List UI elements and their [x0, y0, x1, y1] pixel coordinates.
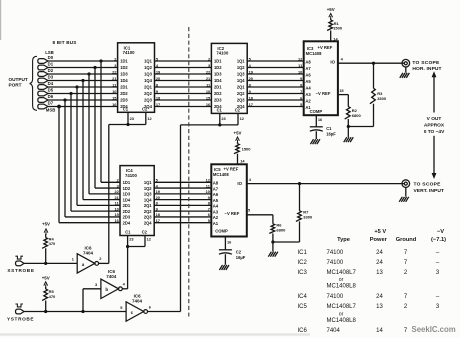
svg-text:A2: A2	[305, 98, 311, 103]
svg-text:1Q2: 1Q2	[237, 65, 245, 70]
wire IC4 2Q4 to IC5	[154, 222, 211, 224]
svg-text:2Q3: 2Q3	[144, 215, 152, 220]
svg-text:74100: 74100	[216, 51, 229, 56]
svg-text:2D2: 2D2	[123, 209, 131, 214]
svg-text:1D2: 1D2	[214, 65, 222, 70]
wire D4 to IC1	[48, 86, 118, 88]
svg-text:2D3: 2D3	[214, 98, 222, 103]
svg-text:Power: Power	[370, 237, 388, 243]
junction IC2 strobe	[218, 123, 221, 126]
svg-text:2D2: 2D2	[214, 91, 222, 96]
svg-text:C1: C1	[326, 126, 332, 131]
svg-text:XSTROBE: XSTROBE	[7, 268, 34, 273]
svg-text:24: 24	[376, 260, 383, 266]
svg-text:7404: 7404	[132, 298, 143, 303]
wire D7 to IC1	[48, 106, 118, 108]
port connector D4	[38, 85, 48, 90]
IC IC4 74100	[120, 166, 154, 236]
svg-text:MC1408L8: MC1408L8	[327, 318, 357, 324]
resistor R7 3300	[296, 184, 313, 242]
svg-text:−V REF: −V REF	[225, 211, 240, 216]
svg-text:2Q1: 2Q1	[144, 203, 152, 208]
svg-text:D0: D0	[48, 55, 54, 60]
junction R6/R7 node	[271, 240, 274, 243]
svg-text:MC1408L7: MC1408L7	[327, 304, 357, 310]
wire inverter a output to IC1 strobe	[108, 125, 110, 264]
port connector D7	[38, 104, 48, 109]
wire C2 to ground	[224, 254, 226, 265]
svg-text:2D1: 2D1	[123, 203, 131, 208]
port connector D5	[38, 91, 48, 96]
ground below R2	[344, 137, 347, 142]
wire D7 branch down to IC4	[58, 107, 60, 223]
svg-text:1D4: 1D4	[120, 78, 128, 83]
junction inverter b tap	[81, 310, 84, 313]
svg-text:2D2: 2D2	[120, 91, 128, 96]
svg-text:APPROX: APPROX	[424, 123, 445, 129]
inverter a IC6 7404	[72, 245, 103, 273]
svg-text:1Q4: 1Q4	[144, 78, 152, 83]
wire D0 to IC1	[48, 60, 118, 62]
pin 16 IC5 COMP	[224, 237, 226, 250]
wire D2 branch down to IC4	[88, 74, 90, 194]
connector to scope vert input	[402, 180, 410, 188]
pin 12 IC1 C2	[145, 112, 147, 124]
inverter c IC6 7404	[120, 293, 152, 321]
svg-text:24: 24	[376, 250, 383, 256]
wire IC1 1Q4 to IC2 1D4	[155, 80, 212, 82]
svg-text:2Q3: 2Q3	[237, 98, 245, 103]
wire D4 branch down to IC4	[76, 87, 78, 205]
svg-text:MC1408: MC1408	[213, 172, 229, 177]
svg-text:A6: A6	[305, 72, 311, 77]
wire IC4 1Q3 to IC5	[154, 193, 211, 195]
svg-text:A3: A3	[213, 209, 219, 214]
svg-text:b: b	[105, 287, 108, 292]
svg-text:TO SCOPE: TO SCOPE	[412, 60, 440, 66]
svg-text:A4: A4	[305, 85, 311, 90]
svg-text:A1: A1	[305, 105, 311, 110]
connector to scope hor input	[402, 59, 410, 67]
svg-text:10: 10	[114, 206, 118, 211]
svg-text:TO SCOPE: TO SCOPE	[414, 182, 442, 188]
wire IC3 output to scope hor	[338, 62, 405, 64]
svg-text:A2: A2	[213, 215, 219, 220]
svg-text:6800: 6800	[352, 113, 362, 118]
wire IC4 1Q2 to IC5	[154, 187, 211, 189]
svg-text:Ground: Ground	[396, 237, 417, 243]
junction R2/R3 node	[347, 125, 350, 128]
wire tap up to inverter b	[82, 289, 84, 312]
svg-text:C1: C1	[123, 107, 129, 112]
svg-text:1D2: 1D2	[123, 186, 131, 191]
svg-text:YSTROBE: YSTROBE	[7, 316, 34, 321]
svg-text:2D1: 2D1	[214, 85, 222, 90]
svg-text:14: 14	[376, 328, 383, 334]
svg-text:−V: −V	[437, 229, 444, 235]
inverter b IC6 7404	[95, 269, 126, 299]
svg-text:10: 10	[112, 89, 116, 94]
resistor R3 3300	[370, 63, 387, 126]
IC IC2 74100	[211, 43, 247, 113]
junction D7	[57, 105, 61, 109]
wire IC1 strobe bar	[109, 124, 146, 126]
resistor R1 1500	[327, 19, 343, 42]
svg-text:1Q3: 1Q3	[144, 72, 152, 77]
svg-text:6800: 6800	[276, 228, 286, 233]
capacitor C2 16uF	[219, 249, 246, 259]
pin 23 IC2 C1	[219, 113, 221, 125]
svg-text:2Q1: 2Q1	[237, 85, 245, 90]
svg-text:1Q3: 1Q3	[144, 192, 152, 197]
svg-text:+5V: +5V	[234, 131, 242, 136]
OUTPUT PORT label	[9, 77, 28, 87]
svg-text:+5V: +5V	[327, 7, 335, 12]
junction IC4 strobe	[126, 245, 129, 248]
svg-text:−V REF: −V REF	[316, 91, 331, 96]
svg-text:0 TO −4V: 0 TO −4V	[424, 129, 445, 135]
svg-text:C2: C2	[236, 249, 242, 254]
wire D1 to IC1	[48, 67, 118, 69]
svg-text:+5V: +5V	[42, 221, 50, 226]
svg-text:1Q1: 1Q1	[144, 59, 152, 64]
wire C1 to ground	[315, 131, 317, 139]
svg-text:7404: 7404	[106, 274, 117, 279]
svg-text:+5 V: +5 V	[374, 229, 386, 235]
svg-text:A8: A8	[213, 181, 219, 186]
svg-text:470: 470	[49, 294, 56, 299]
YSTROBE connector	[16, 309, 25, 314]
wire inverter c out	[148, 311, 181, 313]
pin 16 IC3 COMP	[315, 115, 317, 127]
svg-text:1D1: 1D1	[214, 59, 222, 64]
svg-text:1Q4: 1Q4	[237, 78, 245, 83]
ground below R6	[268, 252, 271, 257]
wire D3 to IC1	[48, 80, 118, 82]
svg-text:IC4: IC4	[298, 294, 308, 300]
ground below C2	[219, 265, 222, 270]
svg-text:IC5: IC5	[298, 304, 308, 310]
wire inverter b out	[122, 288, 127, 290]
svg-text:a: a	[82, 262, 85, 267]
svg-text:COMP: COMP	[310, 109, 323, 114]
svg-text:2Q3: 2Q3	[144, 98, 152, 103]
svg-text:1D1: 1D1	[123, 180, 131, 185]
svg-text:MSB: MSB	[46, 107, 56, 112]
svg-text:D6: D6	[48, 94, 54, 99]
XSTROBE connector	[16, 261, 25, 266]
junction R5	[44, 310, 47, 313]
resistor R4 470	[42, 234, 56, 264]
svg-text:1D3: 1D3	[120, 72, 128, 77]
svg-text:A3: A3	[305, 92, 311, 97]
svg-text:16pF: 16pF	[326, 132, 336, 137]
svg-text:or: or	[339, 277, 344, 283]
wire node to ground	[272, 242, 274, 252]
svg-text:1D1: 1D1	[120, 59, 128, 64]
svg-text:3300: 3300	[303, 214, 313, 219]
svg-text:7404: 7404	[327, 328, 341, 334]
pin 23 IC1 C1	[127, 112, 129, 124]
ground at hor connector	[405, 67, 407, 73]
junction D3	[81, 79, 84, 82]
port connector D3	[38, 78, 48, 83]
svg-text:(−7.1): (−7.1)	[431, 237, 446, 243]
junction R3 top	[372, 62, 375, 65]
wire D2 to IC1	[48, 73, 118, 75]
port connector D0	[38, 59, 48, 64]
wire D6 to IC1	[48, 99, 118, 101]
wire IC1 2Q4 to IC2 2D4	[155, 106, 212, 108]
pin 23 IC4 C1	[127, 236, 129, 247]
wire IC2 1Q1 to IC3 A	[247, 60, 304, 62]
port connector D6	[38, 98, 48, 103]
ground at vert connector	[405, 187, 407, 196]
resistor R2 6800	[345, 95, 362, 127]
svg-text:1Q2: 1Q2	[144, 186, 152, 191]
wire R3 bottom to R2 node	[348, 126, 373, 128]
svg-text:IC3: IC3	[298, 270, 308, 276]
V OUT annotation arrow	[424, 71, 445, 179]
wire IC1 1Q1 to IC2 1D1	[155, 60, 212, 62]
wire inverter a out	[99, 262, 109, 264]
TO SCOPE HOR. INPUT label	[412, 60, 441, 72]
junction R4	[44, 262, 47, 265]
svg-text:3300: 3300	[377, 96, 387, 101]
svg-text:7: 7	[300, 89, 302, 94]
svg-text:MC1408L7: MC1408L7	[327, 270, 357, 276]
svg-text:D4: D4	[48, 81, 54, 86]
svg-text:D1: D1	[48, 61, 54, 66]
svg-text:1Q1: 1Q1	[144, 180, 152, 185]
svg-text:2D3: 2D3	[123, 215, 131, 220]
svg-text:IO: IO	[330, 60, 335, 65]
wire D3 branch down to IC4	[82, 81, 84, 200]
wire IC4 2Q3 to IC5	[154, 216, 211, 218]
scan artifact lines	[0, 333, 310, 335]
svg-text:+V REF: +V REF	[224, 166, 239, 171]
svg-text:PORT: PORT	[9, 82, 22, 87]
wire YSTROBE to inverter c	[24, 311, 126, 313]
svg-text:13: 13	[376, 304, 383, 310]
wire IC1 2Q2 to IC2 2D2	[155, 93, 212, 95]
svg-text:74100: 74100	[123, 50, 136, 55]
wire IC2 1Q3 to IC3 A	[247, 73, 304, 75]
svg-text:2Q1: 2Q1	[144, 85, 152, 90]
svg-text:COMP: COMP	[215, 229, 228, 234]
svg-text:D2: D2	[48, 68, 54, 73]
junction D2	[87, 72, 90, 75]
port connector D1	[38, 65, 48, 70]
svg-text:10: 10	[298, 69, 302, 74]
wire D0 branch down to IC4	[100, 61, 102, 182]
svg-text:D3: D3	[48, 74, 54, 79]
svg-text:10: 10	[206, 189, 210, 194]
svg-text:1Q2: 1Q2	[144, 65, 152, 70]
svg-text:A6: A6	[213, 192, 219, 197]
svg-text:2D3: 2D3	[120, 98, 128, 103]
wire IC1 2Q1 to IC2 2D1	[155, 86, 212, 88]
svg-text:A8: A8	[305, 59, 311, 64]
wire D6 branch down to IC4	[64, 100, 66, 217]
IC power table	[298, 229, 447, 334]
wire R7 bottom to R6 node	[273, 241, 300, 243]
wire IC3 -V REF to R2	[338, 94, 348, 96]
wire IC4 2Q2 to IC5	[154, 210, 211, 212]
wire IC1 2Q3 to IC2 2D3	[155, 99, 212, 101]
svg-text:1D2: 1D2	[120, 65, 128, 70]
svg-text:1500: 1500	[242, 147, 252, 152]
pin 12 IC2 C2	[237, 113, 239, 125]
svg-text:24: 24	[376, 294, 383, 300]
IC IC3 MC1408	[304, 41, 338, 115]
wire IC2 2Q2 to IC3 A	[247, 93, 304, 95]
junction D4	[75, 85, 78, 88]
svg-text:MC1408L8: MC1408L8	[327, 284, 357, 290]
svg-text:V OUT: V OUT	[427, 116, 442, 122]
pin 12 IC4 C2	[144, 236, 146, 247]
svg-text:8 BIT BUS: 8 BIT BUS	[53, 40, 77, 45]
TO SCOPE VERT. INPUT label	[414, 182, 444, 194]
wire IC2 1Q2 to IC3 A	[247, 67, 304, 69]
output port brace	[30, 56, 37, 110]
svg-text:1D4: 1D4	[123, 197, 131, 202]
svg-text:D7: D7	[48, 100, 54, 105]
ground below C1	[310, 139, 313, 144]
svg-text:A7: A7	[213, 186, 219, 191]
wire IC4 2Q1 to IC5	[154, 204, 211, 206]
resistor 1500 (IC5 ref)	[234, 142, 251, 164]
svg-text:470: 470	[49, 241, 56, 246]
wire node to ground	[347, 127, 349, 138]
svg-text:D5: D5	[48, 87, 54, 92]
wire IC4 1Q1 to IC5	[154, 181, 211, 183]
wire IC5 -V REF to R6	[247, 214, 273, 216]
capacitor C1 16pF	[310, 126, 336, 136]
svg-text:A1: A1	[213, 221, 219, 226]
wire IC2 2Q4 to IC3 A	[247, 106, 304, 108]
XSTROBE pulse symbol	[15, 256, 23, 259]
wire IC4 1Q4 to IC5	[154, 199, 211, 201]
svg-text:74100: 74100	[327, 260, 344, 266]
svg-text:A7: A7	[305, 66, 311, 71]
svg-text:2Q2: 2Q2	[237, 91, 245, 96]
wire D1 branch down to IC4	[94, 68, 96, 189]
svg-text:74100: 74100	[327, 294, 344, 300]
svg-text:2Q2: 2Q2	[144, 209, 152, 214]
wire IC5 output to scope vert	[247, 183, 405, 185]
svg-text:C2: C2	[142, 107, 148, 112]
resistor R6 6800	[269, 215, 286, 242]
svg-text:A4: A4	[213, 204, 219, 209]
svg-text:2D1: 2D1	[120, 85, 128, 90]
wire D5 branch down to IC4	[70, 94, 72, 212]
svg-text:13: 13	[376, 270, 383, 276]
junction D6	[63, 98, 66, 101]
svg-text:1500: 1500	[333, 26, 343, 31]
wire inverter c output to IC2 strobe	[180, 125, 182, 312]
dashed divider line	[188, 27, 190, 317]
svg-text:7404: 7404	[83, 250, 94, 255]
junction D0	[99, 59, 102, 62]
svg-text:1D3: 1D3	[214, 72, 222, 77]
svg-text:or: or	[339, 311, 344, 317]
svg-text:VERT. INPUT: VERT. INPUT	[414, 188, 444, 194]
wire IC1 1Q3 to IC2 1D3	[155, 73, 212, 75]
wire IC1 1Q2 to IC2 1D2	[155, 67, 212, 69]
wire inverter b output to IC4 strobe	[127, 247, 129, 289]
svg-text:A5: A5	[305, 79, 311, 84]
svg-text:HOR. INPUT: HOR. INPUT	[412, 66, 441, 72]
svg-text:2Q4: 2Q4	[144, 220, 152, 225]
svg-text:A5: A5	[213, 198, 219, 203]
wire IC2 2Q3 to IC3 A	[247, 99, 304, 101]
svg-text:1Q4: 1Q4	[144, 197, 152, 202]
svg-text:C1: C1	[125, 230, 131, 235]
svg-text:74100: 74100	[125, 173, 138, 178]
svg-text:1Q3: 1Q3	[237, 72, 245, 77]
svg-text:2D4: 2D4	[123, 220, 131, 225]
wire D5 to IC1	[48, 93, 118, 95]
svg-text:IC2: IC2	[298, 260, 308, 266]
svg-text:+5V: +5V	[42, 276, 50, 281]
svg-text:OUTPUT: OUTPUT	[9, 77, 28, 82]
svg-text:C2: C2	[142, 230, 148, 235]
svg-text:IO: IO	[237, 181, 242, 186]
svg-text:16µF: 16µF	[236, 255, 246, 260]
svg-text:2Q2: 2Q2	[144, 91, 152, 96]
svg-text:1Q1: 1Q1	[237, 59, 245, 64]
IC IC1 74100	[118, 43, 155, 113]
junction IC1 strobe	[126, 123, 129, 126]
svg-text:1D4: 1D4	[214, 78, 222, 83]
wire IC2 1Q4 to IC3 A	[247, 80, 304, 82]
port connector D2	[38, 72, 48, 77]
svg-text:SeekIC.com: SeekIC.com	[412, 325, 456, 334]
wire XSTROBE to inverter a	[24, 262, 77, 264]
svg-text:Type: Type	[337, 237, 350, 243]
svg-text:c: c	[131, 310, 134, 315]
YSTROBE pulse symbol	[15, 304, 23, 307]
svg-text:IC1: IC1	[298, 250, 308, 256]
wire IC2 2Q1 to IC3 A	[247, 86, 304, 88]
resistor R5 470	[42, 287, 56, 312]
junction R7 top	[298, 182, 301, 185]
svg-text:+V REF: +V REF	[318, 45, 333, 50]
IC IC5 MC1408	[211, 164, 247, 236]
svg-text:C1: C1	[217, 108, 223, 113]
svg-text:10: 10	[206, 89, 210, 94]
junction D1	[93, 66, 96, 69]
wire IC2 strobe bar	[181, 124, 239, 126]
svg-text:1D3: 1D3	[123, 192, 131, 197]
svg-text:C2: C2	[235, 108, 241, 113]
junction D5	[69, 92, 72, 95]
svg-text:74100: 74100	[327, 250, 344, 256]
wire IC4 strobe bar	[128, 246, 145, 248]
svg-text:IC6: IC6	[298, 328, 308, 334]
svg-text:MC1408: MC1408	[306, 51, 322, 56]
svg-text:7: 7	[208, 206, 210, 211]
